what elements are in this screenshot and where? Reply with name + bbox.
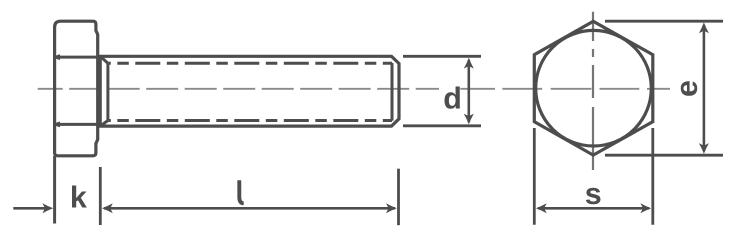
shank outline xyxy=(100,56,399,126)
chamfer start vertical at tip end xyxy=(391,63,394,121)
horizontal centerline (side view through hex view) xyxy=(38,88,439,90)
dimension s arrowhead left xyxy=(536,203,547,213)
bolt head outline (side view) xyxy=(55,21,98,156)
svg-text:e: e xyxy=(670,80,704,97)
vertical centerline of hex view xyxy=(592,12,594,170)
inscribed circle xyxy=(536,30,652,146)
hex head outline (front view) xyxy=(534,21,653,155)
dimension d arrow line xyxy=(467,60,470,122)
thread runout vertical at head end xyxy=(106,63,109,120)
dimension s extension line right xyxy=(651,128,654,225)
chamfer wedge at upper facet xyxy=(54,54,61,60)
svg-text:s: s xyxy=(585,177,602,211)
head lower facet line xyxy=(55,123,97,126)
thread chamfer diagonal bottom at head end xyxy=(100,121,108,127)
dimension s arrowhead right xyxy=(640,203,651,213)
dimension e arrow line xyxy=(703,25,706,151)
chamfer wedge at lower facet xyxy=(54,122,61,128)
head upper facet line xyxy=(55,56,97,59)
label l xyxy=(239,180,243,203)
dimension k outside arrow line xyxy=(13,207,47,210)
dimension l arrowhead right xyxy=(386,203,397,213)
dimension e extension line bottom xyxy=(605,154,723,157)
dimension e arrowhead down xyxy=(699,143,709,154)
dimension d arrowhead up xyxy=(464,58,474,69)
svg-text:d: d xyxy=(443,81,462,115)
dimension s extension line left xyxy=(533,128,536,225)
dimension e extension line top xyxy=(605,20,723,23)
dimension k extension line left xyxy=(53,156,56,224)
dimension s line xyxy=(538,207,649,210)
dimension d extension line top xyxy=(403,55,481,58)
dimension l extension line right xyxy=(397,169,400,226)
dimension k/l shared extension line xyxy=(99,167,102,225)
dimension d extension line bottom xyxy=(403,124,481,127)
dimension l line xyxy=(104,207,395,210)
dimension d arrowhead down xyxy=(464,114,474,125)
thread dashed line bottom xyxy=(108,119,392,122)
thread dashed line top xyxy=(108,62,392,65)
thread chamfer diagonal top at head end xyxy=(100,56,108,63)
dimension k arrowhead right xyxy=(42,203,53,213)
dimension e arrowhead up xyxy=(699,22,709,33)
dimension l arrowhead left xyxy=(102,203,113,213)
svg-text:k: k xyxy=(70,180,87,214)
horizontal centerline right segment xyxy=(460,88,670,90)
